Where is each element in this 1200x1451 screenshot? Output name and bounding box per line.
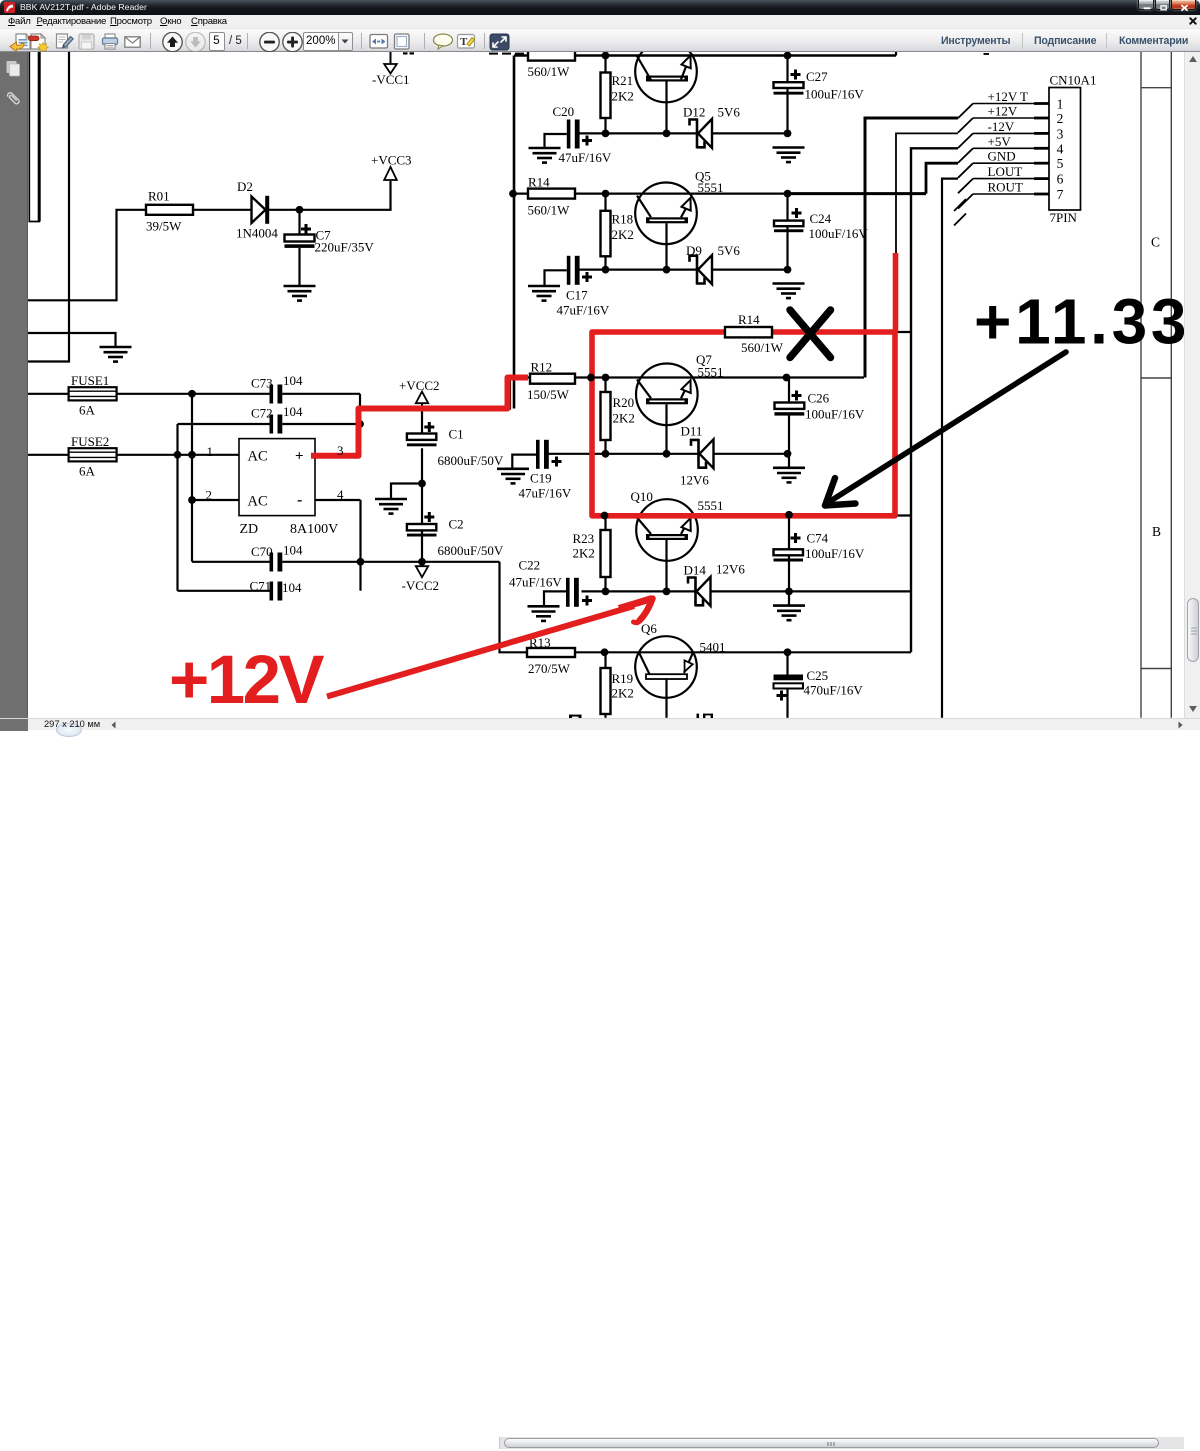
svg-text:5V6: 5V6 [718,243,741,258]
zener diode D14 [688,576,711,606]
svg-text:FUSE2: FUSE2 [71,434,109,449]
ground (C20) [529,148,561,163]
bridge rectifier ZD [206,439,339,537]
capacitor C24 [774,190,868,270]
ground (row4) [773,606,805,621]
svg-text:12V6: 12V6 [680,473,709,488]
capacitor C20 [545,104,612,165]
wire left vertical C [28,52,69,362]
svg-text:+: + [295,449,304,465]
wire left rail vertical x514 [513,56,516,409]
net label +12V T / pin 1 wire [958,89,1049,118]
svg-text:C: C [1151,235,1160,250]
svg-text:220uF/35V: 220uF/35V [315,240,375,255]
resistor R14 (560/1W) [528,175,576,218]
ground (C1C2) [375,499,407,514]
svg-text:+12V: +12V [169,641,325,718]
svg-text:5401: 5401 [700,640,726,655]
cut-off mark top right [984,53,990,55]
svg-text:2K2: 2K2 [612,227,634,242]
black dots over red rail [601,512,609,520]
capacitor C72 [178,423,272,425]
bottom status / scrollbar [0,718,1200,730]
schematic page border [1141,52,1171,718]
svg-text:2K2: 2K2 [612,686,634,701]
svg-text:39/5W: 39/5W [146,219,182,234]
svg-text:CN10A1: CN10A1 [1050,73,1097,88]
diode D2 [236,179,278,241]
wire row2 lower [578,269,791,271]
capacitor C22 [509,558,592,607]
svg-text:ROUT: ROUT [988,180,1023,195]
svg-text:+12V: +12V [988,104,1018,119]
wire +12VT net to Q7 rail [865,118,958,378]
wire C70 row to C2 node [282,561,499,563]
transistor Q1 top (cut) [635,41,697,134]
wire pin2 row [192,499,239,501]
svg-text:+5V: +5V [988,134,1012,149]
svg-text:C72: C72 [251,406,273,421]
power symbol +VCC2 [399,378,440,412]
capacitor C72 plates [270,415,283,434]
red stub +12V net [893,253,899,332]
svg-text:560/1W: 560/1W [528,64,571,79]
svg-text:2K2: 2K2 [613,411,635,426]
svg-text:C70: C70 [251,544,273,559]
fuse FUSE2 [28,434,117,479]
wire R01 to D2 [193,209,252,211]
wire vertical x177.5 (fuse2 to C72/C71) [176,424,178,591]
ground stem C26 [788,454,790,468]
svg-text:-: - [297,492,302,509]
svg-text:2K2: 2K2 [573,546,595,561]
svg-text:100uF/16V: 100uF/16V [805,87,865,102]
toolbar [0,28,1200,53]
svg-text:C24: C24 [810,211,832,226]
svg-text:150/5W: 150/5W [527,387,570,402]
ground (left) [100,347,132,362]
svg-text:R19: R19 [612,671,634,686]
net label GND / pin 5 wire [958,149,1049,178]
ground (row3) [773,468,805,483]
svg-text:AC: AC [248,449,268,465]
wire stub up x896 [895,52,897,56]
svg-text:Q6: Q6 [641,621,657,636]
wire rail row4 (under red) [592,514,911,516]
capacitor C70 [192,561,272,563]
svg-text:D2: D2 [237,179,253,194]
svg-text:104: 104 [283,404,303,419]
svg-text:270/5W: 270/5W [528,661,571,676]
resistor R23 [573,516,611,592]
resistor R18 [601,194,634,270]
svg-text:R21: R21 [612,73,634,88]
wire GND net down x942 [942,179,958,718]
svg-text:5: 5 [1057,156,1064,171]
wire D2 to VCC3 corner [269,181,391,210]
resistor R19 [601,652,634,718]
red highlight rectangle [592,332,895,516]
svg-text:47uF/16V: 47uF/16V [519,486,572,501]
svg-text:7PIN: 7PIN [1050,210,1078,225]
svg-text:104: 104 [283,543,303,558]
svg-text:C20: C20 [553,104,575,119]
svg-text:R01: R01 [148,189,170,204]
net label ROUT / pin 7 wire [958,180,1049,209]
capacitor C19 [512,440,572,501]
svg-text:100uF/16V: 100uF/16V [809,226,869,241]
svg-text:-12V: -12V [988,119,1015,134]
wire R14/560 row (crossed) [592,331,911,333]
svg-text:C73: C73 [251,376,273,391]
svg-text:-VCC2: -VCC2 [402,578,440,593]
svg-text:2: 2 [206,488,213,503]
svg-text:1: 1 [1057,97,1064,112]
capacitor C19 plates [536,440,549,469]
black X cross-out mark [790,310,831,358]
wire +5V net to Q5 rail [926,163,958,193]
svg-text:C17: C17 [566,288,588,303]
svg-text:5551: 5551 [698,498,724,513]
capacitor C20 plates [567,120,580,149]
vertical scrollbar [1184,52,1200,718]
svg-text:4: 4 [337,487,344,502]
svg-text:5V6: 5V6 [718,105,741,120]
transistor Q5 [635,169,723,270]
svg-text:ZD: ZD [240,522,259,537]
ground (row1) [773,148,805,163]
net label +12V / pin 2 wire [958,104,1049,133]
wire rail row5 [575,651,911,653]
zener diode D12 [690,118,713,148]
svg-text:6A: 6A [79,403,96,418]
svg-text:560/1W: 560/1W [741,340,784,355]
svg-text:2K2: 2K2 [612,89,634,104]
window title bar [0,0,1200,15]
transistor Q6 (PNP) [635,621,725,718]
svg-text:47uF/16V: 47uF/16V [557,303,610,318]
wire C73/C72 to + node [282,393,360,395]
svg-text:C19: C19 [530,471,552,486]
cut-off text top: D1 1N4004 [403,52,564,54]
svg-text:6800uF/50V: 6800uF/50V [438,543,504,558]
svg-text:470uF/16V: 470uF/16V [804,683,864,698]
resistor R14 560/1W (crossed out, over red) [725,312,784,355]
svg-text:AC: AC [248,494,268,510]
wire rail row3 [513,376,864,378]
svg-text:T: T [460,36,468,48]
svg-text:1N4004: 1N4004 [236,226,278,241]
svg-text:C1: C1 [449,427,464,442]
svg-text:B: B [1152,524,1161,539]
svg-text:12V6: 12V6 [716,562,745,577]
svg-text:1: 1 [207,444,214,459]
wire ZD pin3 (+) [315,455,360,457]
transistor Q10 [631,489,724,591]
power symbol +VCC3 [371,153,412,181]
wire ZD pin4 to C70/C71 rows [315,499,361,501]
capacitor C17 [545,256,610,318]
fuse FUSE1 [28,373,117,418]
wire ground branch left [28,333,116,347]
svg-text:R20: R20 [613,395,635,410]
svg-text:100uF/16V: 100uF/16V [805,546,865,561]
svg-text:6800uF/50V: 6800uF/50V [438,453,504,468]
resistor 560/1W (top, cut) [528,48,576,79]
power symbol -VCC1 [372,52,410,87]
left sidebar [0,52,28,730]
wire row1 lower [578,132,791,134]
svg-text:C74: C74 [807,531,829,546]
wire FUSE1 row to C73 [117,393,272,395]
svg-text:GND: GND [988,149,1016,164]
capacitor C27 [774,52,865,134]
svg-text:6A: 6A [79,464,96,479]
capacitor C73 plates [270,385,283,404]
zener diode D11 [691,439,714,469]
svg-text:C26: C26 [808,391,830,406]
resistor R12 [527,360,575,403]
svg-text:104: 104 [283,373,303,388]
svg-text:5551: 5551 [698,365,724,380]
ground (C22) [528,606,560,621]
connector CN10A1 [1049,73,1096,226]
svg-text:5551: 5551 [698,180,724,195]
capacitor C1 [407,409,504,562]
ground (C19) [497,469,529,484]
wire +12V net down x896 [896,133,958,253]
capacitor C2 [407,512,504,558]
menu bar [0,15,1200,28]
ground branch C1/C2 [418,480,426,488]
svg-text:-VCC1: -VCC1 [372,72,410,87]
svg-text:FUSE1: FUSE1 [71,373,109,388]
resistor R01 [146,189,193,234]
svg-text:104: 104 [282,580,302,595]
svg-text:4: 4 [1057,141,1064,156]
svg-text:6: 6 [1057,172,1064,187]
wire row4 lower [582,590,912,592]
wire -12V net down x911 [911,148,958,652]
ground (C17) [528,286,560,301]
junction dots fuse rows [188,390,196,398]
resistor R21 [601,56,634,134]
capacitor C71 plates [270,582,283,601]
capacitor C70 plates [270,553,283,572]
red highlight path ZD+ to R12 [311,378,528,456]
black arrow from +11.33 [825,352,1066,506]
svg-text:D14: D14 [684,563,707,578]
ground (row2) [773,284,805,299]
svg-text:LOUT: LOUT [988,164,1023,179]
wire R01 feed [28,210,146,300]
partial components bottom edge [569,714,713,718]
document [28,52,1184,718]
transistor Q7 [636,352,724,454]
capacitor C25 [774,652,864,718]
svg-text:C2: C2 [449,517,464,532]
ROUT off-page slash [954,214,966,226]
svg-text:R14: R14 [738,312,760,327]
svg-text:+VCC2: +VCC2 [399,378,440,393]
resistor R13 [527,635,575,676]
wire C2 node down to R13 [500,562,528,653]
svg-text:560/1W: 560/1W [528,203,571,218]
wire vertical x192 (fuse1 to pin2/C70) [191,394,193,562]
power symbol -VCC2 [402,562,440,593]
net label LOUT / pin 6 wire [958,164,1049,193]
capacitor C22 plates [566,578,579,607]
svg-text:Q10: Q10 [631,489,653,504]
capacitor C71 [178,590,272,592]
wire FUSE2 row to ZD pin1 [117,454,239,456]
wire row3 lower [547,453,790,455]
svg-text:R23: R23 [573,531,595,546]
resistor R20 [601,378,635,454]
svg-text:3: 3 [337,443,344,458]
svg-text:C71: C71 [250,579,272,594]
red arrow to +12V junction [327,599,653,697]
svg-text:R18: R18 [612,212,634,227]
ground (C7) [284,286,316,301]
svg-text:C25: C25 [807,668,829,683]
ground stem row4 [788,591,790,605]
svg-text:+12V T: +12V T [988,89,1029,104]
svg-text:R12: R12 [531,360,553,375]
svg-text:D12: D12 [683,105,705,120]
svg-text:D9: D9 [686,243,702,258]
capacitor C74 [774,516,865,592]
net label -12V / pin 3 wire [958,119,1049,148]
wire +VCC2 node to R12 (under red) [360,378,510,456]
capacitor C26 [775,374,865,454]
svg-text:7: 7 [1057,187,1064,202]
zener diode D9 [690,255,713,285]
net label +5V / pin 4 wire [958,134,1049,163]
capacitor C17 plates [567,256,580,285]
svg-text:R14: R14 [528,175,550,190]
node dot D2/C7 [296,206,304,214]
capacitor C7 [285,210,375,286]
svg-text:C27: C27 [806,69,828,84]
svg-text:100uF/16V: 100uF/16V [805,407,865,422]
svg-text:47uF/16V: 47uF/16V [559,150,612,165]
svg-text:+11.33: +11.33 [974,286,1184,358]
svg-text:D11: D11 [681,424,703,439]
wire rail row2 [513,193,790,195]
wire left U-pair [29,52,39,222]
svg-text:2: 2 [1057,111,1064,126]
svg-text:+VCC3: +VCC3 [371,153,412,168]
LOUT off-page slash [954,199,966,211]
svg-text:8A100V: 8A100V [290,522,338,537]
svg-text:C22: C22 [519,558,541,573]
svg-text:3: 3 [1057,126,1064,141]
wire rail row1 [514,54,896,57]
svg-text:47uF/16V: 47uF/16V [509,575,562,590]
